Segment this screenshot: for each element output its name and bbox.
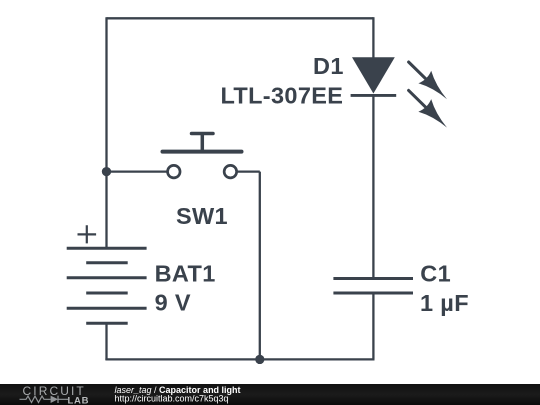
battery plate long 3 — [67, 307, 147, 310]
node junction left — [102, 167, 111, 176]
switch plunger stem — [201, 134, 205, 151]
wire top — [107, 17, 374, 19]
battery plate short 1 — [86, 261, 128, 264]
capacitor plate top — [333, 277, 413, 280]
svg-text:LAB: LAB — [68, 396, 90, 405]
LED light arrow 2 — [409, 90, 447, 127]
wire capacitor to bottom — [372, 293, 374, 359]
switch SW1 — [163, 134, 242, 230]
wire bottom — [105, 358, 374, 360]
LED D1 — [220, 53, 447, 128]
footer bar — [0, 384, 540, 405]
switch plunger cap — [192, 132, 214, 136]
battery plate long 1 — [67, 247, 147, 250]
switch contact left — [168, 165, 181, 178]
LED light arrow 1 — [409, 62, 447, 99]
node junction bottom — [255, 355, 264, 364]
svg-text:http://circuitlab.com/c7k5q3q: http://circuitlab.com/c7k5q3q — [115, 393, 229, 403]
wire battery bottom — [105, 323, 107, 361]
wire switch left — [107, 170, 167, 172]
wire LED anode — [372, 17, 374, 58]
logo wire with resistor and diode — [20, 396, 69, 403]
svg-text:BAT1: BAT1 — [155, 261, 216, 287]
LED triangle — [352, 57, 395, 93]
switch contact right — [224, 165, 237, 178]
wire switch right — [237, 170, 259, 172]
svg-text:SW1: SW1 — [176, 203, 228, 229]
logo diode triangle — [51, 396, 58, 403]
battery plus sign — [78, 225, 97, 243]
battery BAT1 — [67, 225, 216, 323]
svg-text:D1: D1 — [313, 53, 344, 79]
capacitor C1 — [333, 261, 469, 316]
switch actuator bar — [163, 150, 242, 154]
wire left — [105, 17, 107, 248]
battery plate short 3 — [86, 322, 128, 325]
wire LED cathode to capacitor — [372, 96, 374, 280]
svg-text:LTL-307EE: LTL-307EE — [220, 83, 343, 109]
LED cathode bar — [351, 94, 397, 97]
battery plate short 2 — [86, 292, 128, 295]
svg-text:9 V: 9 V — [155, 290, 191, 316]
svg-text:1 µF: 1 µF — [420, 290, 469, 316]
battery plate long 2 — [67, 276, 147, 279]
svg-text:C1: C1 — [420, 261, 451, 287]
wire switch to bottom node — [259, 172, 261, 360]
capacitor plate bottom — [333, 292, 413, 295]
